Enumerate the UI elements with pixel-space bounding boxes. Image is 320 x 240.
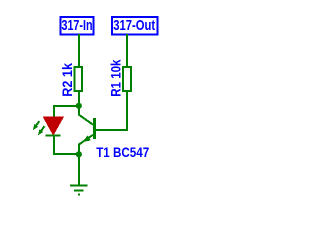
wire LED anode (vertical): [53, 105, 55, 118]
wire node B to ground: [78, 154, 80, 185]
resistor R2 body: [75, 67, 82, 91]
wire 317-Out to R1: [126, 34, 128, 67]
svg-text:T1 BC547: T1 BC547: [96, 145, 149, 160]
node B junction dot: [76, 151, 82, 157]
svg-text:R2 1k: R2 1k: [60, 63, 76, 97]
net label box 317-In: [60, 17, 93, 35]
svg-text:R1 10k: R1 10k: [108, 59, 124, 96]
transistor T1 collector wire (node A to bar): [79, 106, 93, 125]
wire node B horizontal: [53, 153, 79, 155]
ground symbol: [70, 186, 88, 195]
resistor R1 body: [123, 67, 131, 91]
wire 317-In to R2: [78, 34, 80, 67]
net label box 317-Out: [112, 17, 158, 35]
node A junction dot: [76, 103, 82, 109]
wire node A to LED (horizontal): [53, 105, 79, 107]
wire LED cathode to node B: [53, 136, 55, 156]
LED emission arrow 1: [34, 121, 40, 129]
transistor T1 base bar: [93, 118, 96, 139]
wire R1 down to base corner: [96, 91, 127, 130]
svg-text:317-Out: 317-Out: [113, 18, 155, 34]
svg-text:317-In: 317-In: [62, 18, 93, 34]
LED D1 triangle: [43, 117, 64, 136]
wire R2 to node A: [78, 91, 80, 115]
transistor T1 emitter wire with arrow: [79, 135, 93, 154]
LED cathode bar: [46, 135, 61, 137]
LED emission arrow 2: [39, 126, 45, 134]
